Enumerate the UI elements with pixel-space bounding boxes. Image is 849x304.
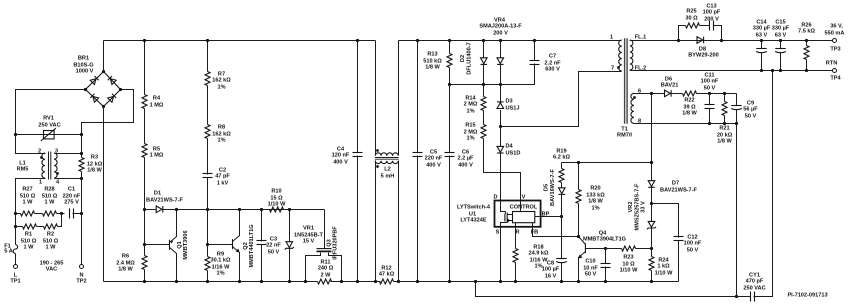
svg-text:470 pF: 470 pF (746, 279, 764, 285)
svg-text:1 W: 1 W (24, 245, 35, 251)
svg-text:R27: R27 (22, 187, 32, 193)
wire L column (16, 179, 46, 245)
svg-text:1%: 1% (217, 138, 225, 144)
svg-text:1: 1 (39, 180, 42, 186)
svg-text:FL.1: FL.1 (635, 35, 647, 41)
svg-text:50 V: 50 V (745, 114, 757, 120)
svg-text:250 VAC: 250 VAC (743, 286, 765, 292)
svg-text:1/10 W: 1/10 W (655, 271, 673, 277)
wire N column (81, 172, 83, 265)
svg-text:PI-7102-091713: PI-7102-091713 (787, 293, 827, 299)
svg-text:D1: D1 (154, 191, 161, 197)
svg-text:1/8 W: 1/8 W (425, 65, 440, 71)
resistor R20 (576, 163, 605, 237)
wire pin6 bias (634, 93, 665, 95)
capacitor C15 (772, 20, 790, 73)
resistor R24 (649, 249, 673, 284)
svg-text:6.2 kΩ: 6.2 kΩ (553, 155, 570, 161)
terminal TP1 (10, 265, 20, 285)
svg-text:5 mH: 5 mH (381, 174, 395, 180)
diode D8 (688, 37, 718, 59)
svg-text:200 V: 200 V (493, 31, 508, 37)
capacitor C6 (445, 150, 475, 169)
svg-text:LYT4324E: LYT4324E (460, 218, 486, 224)
svg-text:50 V: 50 V (268, 250, 280, 256)
svg-text:R15: R15 (465, 123, 475, 129)
bridge BR1 (73, 56, 122, 109)
resistor R3 (79, 152, 103, 180)
svg-text:50 V: 50 V (687, 248, 699, 254)
svg-text:15 V: 15 V (303, 239, 315, 245)
svg-text:R23: R23 (623, 255, 633, 261)
svg-text:50 V: 50 V (704, 86, 716, 92)
wire R7R8C2R9 column (207, 41, 209, 72)
svg-text:R20: R20 (590, 186, 600, 192)
U1 internal mosfet (501, 201, 513, 228)
wire R15 to V pin (484, 139, 521, 201)
wire FL2 out / RTN (630, 70, 833, 72)
resistor R5 (142, 144, 164, 159)
svg-text:BAV16WS-7-F: BAV16WS-7-F (550, 168, 556, 205)
wire choke pin3 (55, 153, 82, 155)
wire drain from T1 pin7 (501, 72, 622, 127)
U1 FB pin wire (533, 223, 579, 237)
resistor R21 (717, 92, 733, 145)
wire L upper segment (16, 90, 86, 154)
svg-text:100 nF: 100 nF (684, 241, 702, 247)
wire FL1 out (630, 40, 833, 42)
svg-text:VAC: VAC (46, 267, 57, 273)
capacitor C8 (542, 217, 567, 284)
svg-text:SMAJ200A-13-F: SMAJ200A-13-F (479, 24, 522, 30)
svg-text:1: 1 (610, 35, 613, 41)
svg-text:C7: C7 (549, 54, 556, 60)
svg-text:400 V: 400 V (458, 163, 473, 169)
svg-text:1000 V: 1000 V (76, 69, 94, 75)
resistor R14 (464, 85, 486, 115)
wire pin8 bias return (634, 123, 737, 125)
svg-text:1/8 W: 1/8 W (682, 111, 697, 117)
diode D1 (143, 191, 184, 213)
wire R4R5R6 column (144, 41, 146, 95)
svg-text:4: 4 (56, 180, 60, 186)
wire bias return down to CY1 (736, 124, 738, 297)
svg-text:D7: D7 (672, 181, 679, 187)
fuse F1 (4, 244, 17, 255)
svg-text:7: 7 (611, 66, 614, 72)
wire L input vertical (15, 254, 17, 265)
svg-text:R3: R3 (91, 155, 98, 161)
svg-text:R13: R13 (427, 52, 437, 58)
capacitor C11 (701, 73, 719, 126)
svg-text:630 V: 630 V (545, 67, 560, 73)
svg-text:162 kΩ: 162 kΩ (212, 78, 231, 84)
svg-text:TP1: TP1 (10, 279, 20, 285)
resistor R6 (116, 254, 147, 273)
snubber C13 (700, 4, 724, 43)
resistor R7 (205, 72, 231, 91)
svg-text:1%: 1% (466, 109, 474, 115)
svg-text:FB: FB (531, 230, 538, 236)
U1 BP pin wire (535, 216, 562, 218)
svg-text:MMBT4401LT1G: MMBT4401LT1G (249, 224, 255, 267)
capacitor C2 (203, 168, 231, 187)
svg-text:D2: D2 (460, 55, 466, 62)
wire pin1 (618, 40, 622, 42)
U1 V pin internal (520, 201, 522, 212)
svg-text:DFLU1400-7: DFLU1400-7 (467, 42, 473, 74)
diode D2 (460, 39, 487, 85)
svg-text:56 µF: 56 µF (743, 107, 758, 113)
resistor R13 (423, 52, 452, 71)
wire bridge+ to rail (103, 41, 105, 72)
svg-text:120 nF: 120 nF (332, 153, 350, 159)
svg-text:47 kΩ: 47 kΩ (379, 272, 395, 278)
capacitor C10 (583, 247, 610, 283)
resistor R9 (205, 252, 231, 277)
capacitor C9 (731, 94, 758, 126)
diode D7 (648, 181, 697, 222)
svg-text:3: 3 (55, 149, 58, 155)
zener VR1 (285, 210, 324, 284)
diode D4 (497, 127, 520, 201)
capacitor C7 (501, 39, 562, 85)
label 190-265 VAC (40, 261, 64, 273)
resistor R23 (606, 246, 654, 274)
resistor R26 (798, 23, 815, 73)
svg-text:C1: C1 (68, 187, 75, 193)
svg-text:R28: R28 (44, 187, 54, 193)
svg-text:2 W: 2 W (321, 273, 332, 279)
svg-text:1%: 1% (217, 85, 225, 91)
svg-text:R4: R4 (153, 96, 161, 102)
svg-text:V: V (522, 195, 526, 201)
mosfet Q3 (304, 210, 343, 284)
svg-text:1 kV: 1 kV (217, 181, 229, 187)
svg-text:36 V,: 36 V, (830, 24, 843, 30)
op-amp U1 LYTSwitch-4 box (457, 195, 550, 236)
svg-text:1 kΩ: 1 kΩ (657, 264, 670, 270)
resistor R1 (14, 224, 37, 251)
wire bridge- to bus (103, 107, 105, 282)
terminal TP4 (826, 61, 842, 82)
svg-text:33 V: 33 V (641, 201, 647, 213)
wire bottom bus (104, 281, 318, 283)
svg-text:R25: R25 (686, 9, 696, 15)
diode D6 (650, 77, 683, 97)
svg-text:TP4: TP4 (830, 76, 841, 82)
svg-text:1/8 W: 1/8 W (118, 267, 133, 273)
svg-text:50 V: 50 V (585, 272, 597, 278)
svg-text:330 µF: 330 µF (772, 26, 790, 32)
snubber R25 (677, 9, 700, 43)
svg-text:250 VAC: 250 VAC (38, 123, 60, 129)
svg-text:R2: R2 (47, 232, 54, 238)
svg-text:D: D (493, 195, 497, 201)
resistor R28 (35, 187, 65, 217)
svg-text:D3: D3 (506, 99, 513, 105)
svg-text:16 V: 16 V (545, 274, 557, 280)
resistor R27 (14, 187, 36, 217)
svg-text:200 V: 200 V (704, 17, 719, 23)
svg-text:L2: L2 (384, 167, 391, 173)
svg-text:TP2: TP2 (76, 279, 86, 285)
resistor R22 (682, 91, 736, 117)
svg-text:R: R (515, 230, 519, 236)
wire bus drop to CY line (476, 282, 737, 297)
resistor R10 (268, 189, 286, 213)
capacitor C12 (652, 204, 702, 282)
svg-text:R1: R1 (25, 232, 32, 238)
svg-text:240 Ω: 240 Ω (318, 266, 334, 272)
svg-text:30.1 kΩ: 30.1 kΩ (210, 258, 231, 264)
capacitor C5 (413, 39, 443, 283)
svg-text:47 pF: 47 pF (215, 174, 230, 180)
svg-text:1/8 W: 1/8 W (717, 139, 732, 145)
svg-text:BR1: BR1 (78, 56, 89, 62)
choke L1 (17, 149, 60, 186)
svg-text:1%: 1% (591, 206, 599, 212)
svg-text:1 W: 1 W (46, 245, 57, 251)
svg-text:BAV21: BAV21 (661, 83, 679, 89)
diode D5 (544, 168, 566, 216)
svg-text:550 mA: 550 mA (825, 31, 845, 37)
resistor R4 (142, 95, 164, 109)
svg-text:MMBT3906: MMBT3906 (183, 230, 189, 259)
svg-text:100 nF: 100 nF (701, 79, 719, 85)
resistor R2 (37, 214, 62, 251)
svg-text:RM5: RM5 (17, 167, 29, 173)
U1 S pin wire (500, 228, 502, 282)
svg-text:RM7/I: RM7/I (617, 133, 632, 139)
svg-text:MMBT3904LT1G: MMBT3904LT1G (583, 237, 626, 243)
svg-text:S: S (496, 230, 500, 236)
svg-text:C10: C10 (585, 259, 595, 265)
svg-text:100 pF: 100 pF (703, 10, 721, 16)
resistor R18 (513, 245, 549, 284)
svg-text:RTN: RTN (826, 61, 838, 67)
svg-text:30 Ω: 30 Ω (685, 16, 698, 22)
svg-text:BAV21WS-7-F: BAV21WS-7-F (146, 198, 183, 204)
transistor Q2 (206, 210, 255, 284)
diode D3 (497, 85, 520, 129)
resistor R12 (379, 266, 395, 285)
svg-text:1 MΩ: 1 MΩ (150, 103, 164, 109)
svg-text:VR1: VR1 (303, 226, 314, 232)
svg-text:Q3: Q3 (327, 239, 333, 246)
capacitor C3 (257, 210, 282, 284)
svg-text:US1J: US1J (506, 106, 520, 112)
U1 R pin wire (515, 223, 517, 249)
svg-text:IRFU320PBF: IRFU320PBF (333, 226, 339, 260)
tvs VR4 (479, 18, 522, 85)
resistor R15 (464, 111, 486, 142)
svg-text:LYTSwitch-4: LYTSwitch-4 (457, 205, 491, 211)
capacitor C14 (753, 20, 771, 73)
wire fb node row (562, 162, 652, 164)
capacitor CY1 (737, 69, 775, 302)
svg-text:1%: 1% (466, 136, 474, 142)
wire clamp node (450, 84, 535, 86)
svg-text:2 MΩ: 2 MΩ (464, 102, 478, 108)
svg-text:400 V: 400 V (426, 163, 441, 169)
wire choke pin4 (55, 178, 82, 180)
resistor R13 + capacitor C6 column (449, 41, 451, 54)
svg-text:R8: R8 (218, 125, 225, 131)
svg-text:D5: D5 (544, 184, 550, 191)
wire top rail (104, 40, 376, 42)
svg-text:TP3: TP3 (830, 47, 840, 53)
svg-text:275 V: 275 V (64, 200, 79, 206)
svg-text:RV1: RV1 (43, 116, 54, 122)
svg-text:63 V: 63 V (775, 33, 787, 39)
capacitor C1 (63, 187, 83, 219)
svg-text:1/10 W: 1/10 W (620, 268, 638, 274)
svg-text:5 A: 5 A (4, 249, 13, 255)
wire pin6 node down to fb node (651, 94, 653, 181)
svg-text:1%: 1% (216, 271, 224, 277)
svg-text:MMSZ5257BS-7-F: MMSZ5257BS-7-F (634, 183, 640, 231)
transformer T1 (610, 35, 646, 139)
svg-text:BAV21WS-7-F: BAV21WS-7-F (660, 188, 697, 194)
capacitor C4 (332, 39, 363, 283)
wire node D1 row (177, 209, 325, 211)
transistor Q4 (577, 231, 626, 284)
svg-text:2.2 µF: 2.2 µF (458, 156, 475, 162)
transistor Q1 (143, 210, 189, 284)
svg-text:1/10 W: 1/10 W (268, 202, 286, 208)
zener VR2 (628, 183, 656, 249)
svg-text:400 V: 400 V (333, 160, 348, 166)
svg-text:R6: R6 (122, 254, 129, 260)
svg-text:R21: R21 (719, 126, 729, 132)
inductor L2 (374, 41, 400, 284)
varistor RV1 (14, 116, 83, 142)
svg-text:220 nF: 220 nF (425, 156, 443, 162)
svg-text:63 V: 63 V (756, 33, 768, 39)
svg-text:2: 2 (38, 149, 41, 155)
svg-text:1 W: 1 W (45, 200, 56, 206)
resistor R11 (318, 260, 334, 285)
svg-text:R22: R22 (684, 98, 694, 104)
svg-text:US1D: US1D (506, 151, 521, 157)
svg-text:R10: R10 (271, 189, 281, 195)
svg-text:D4: D4 (506, 144, 514, 150)
resistor R8 (205, 125, 231, 144)
terminal TP2 (76, 265, 86, 285)
resistor R19 (553, 149, 570, 188)
svg-text:VR2: VR2 (628, 202, 634, 213)
svg-text:1/8 W: 1/8 W (588, 199, 603, 205)
svg-text:1/8 W: 1/8 W (87, 168, 102, 174)
svg-text:CONTROL: CONTROL (510, 205, 538, 211)
svg-text:24.9 kΩ: 24.9 kΩ (528, 251, 549, 257)
svg-text:1 W: 1 W (23, 200, 34, 206)
svg-text:7.5 kΩ: 7.5 kΩ (798, 29, 815, 35)
svg-text:22 nF: 22 nF (266, 243, 281, 249)
svg-text:1 MΩ: 1 MΩ (150, 153, 164, 159)
svg-text:BYW29-200: BYW29-200 (688, 53, 718, 59)
svg-text:100 µF: 100 µF (542, 267, 560, 273)
svg-text:330 µF: 330 µF (753, 26, 771, 32)
terminal TP3 (825, 24, 845, 53)
